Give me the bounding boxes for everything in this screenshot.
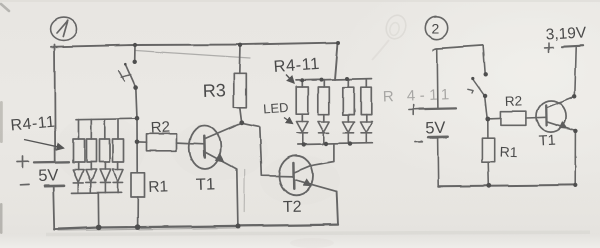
wire R1 to bottom rail [137, 198, 139, 228]
wire switch S1 to node [136, 88, 137, 119]
junction R2 branch [135, 140, 140, 145]
junction top rail / R3 [238, 43, 242, 47]
svg-text:R1: R1 [148, 178, 168, 196]
figure label glyph 1 [57, 21, 68, 37]
switch S2 lever [473, 79, 485, 96]
wire lead R9 top [323, 80, 325, 87]
junction bank2 bottom rail b [324, 142, 328, 146]
battery B1 plus sign [18, 157, 29, 168]
svg-text:3,19V: 3,19V [545, 24, 587, 43]
wire lead LED8 [365, 115, 367, 122]
wire LED bank 2 bottom rail [298, 143, 372, 144]
battery B1 minus sign [21, 183, 30, 185]
LED D7 [343, 122, 355, 144]
wire lead R4 top [78, 119, 80, 139]
svg-text:T2: T2 [283, 199, 302, 216]
wire top rail to switch S1 [134, 45, 136, 62]
wire top rail to resistor R3 [238, 45, 241, 74]
wire bank 1 to bottom rail [97, 193, 99, 228]
svg-text:5V: 5V [425, 119, 446, 138]
wire lead LED3 [104, 162, 106, 170]
resistor R2 c2 [501, 111, 526, 125]
battery B1 plus plate [34, 161, 69, 164]
wire T1 emitter to bottom rail c2 [574, 131, 576, 185]
LED D3 [100, 170, 111, 193]
LED D5 [297, 122, 309, 144]
junction switch S2 top contact [484, 72, 488, 76]
wire battery B1 to bottom rail [53, 186, 54, 229]
paper edge mark left upper [0, 101, 3, 143]
transistor T2 emitter arrow [303, 178, 312, 186]
wire lead LED7 [348, 115, 350, 122]
svg-text:R4-11: R4-11 [273, 55, 320, 76]
bottom smudge band [46, 232, 590, 234]
transistor T1 base bar [203, 136, 206, 157]
LED D6 [318, 122, 330, 144]
arrow label R4-11 bank2 [286, 75, 294, 84]
svg-text:5V: 5V [38, 166, 59, 185]
junction bank2 top rail c [345, 77, 349, 81]
arrow label LED [284, 118, 293, 124]
junction switch S1 bottom contact [133, 85, 138, 90]
wire lead LED1 [77, 162, 79, 170]
junction dots circuit 1 [96, 41, 352, 230]
junction bank1 rail / R1 column [135, 116, 140, 121]
resistor R6 [100, 139, 110, 162]
figure label circle 2 [425, 17, 447, 39]
transistor T1 c2 emitter [547, 122, 576, 131]
labels circuit 1 [10, 55, 321, 216]
wire lead R7 top [117, 119, 119, 139]
wire lead LED4 [117, 162, 119, 170]
wire top rail sketch double stroke [136, 51, 250, 59]
switch S1 actuator stroke [119, 71, 125, 82]
wire left vertical [54, 45, 57, 162]
junction T1 collector 3,19V node [572, 94, 576, 98]
junction R2 R1 node c2 [485, 117, 490, 122]
wire bottom rail [54, 225, 338, 230]
transistor T2 base bar [292, 163, 295, 189]
wire lead R8 top [301, 80, 303, 87]
svg-text:2: 2 [432, 21, 440, 37]
transistor T2 body [279, 156, 313, 196]
switch S1 lever [125, 64, 135, 87]
wire battery B2 to bottom rail [437, 137, 440, 186]
wire 3,19V terminal vertical [574, 48, 575, 97]
terminal 3,19V bar [562, 46, 583, 47]
junction dots circuit 2 [471, 72, 577, 188]
terminal 3,19V plus sign [545, 43, 554, 52]
resistor R2 [147, 134, 177, 151]
resistor R4 [73, 139, 85, 162]
resistor R10 [343, 87, 354, 114]
transistor T1 c2 base bar [545, 105, 548, 126]
svg-text:T1: T1 [538, 133, 556, 150]
transistor T1 emitter [205, 152, 237, 169]
wire switch S2 to node [485, 96, 488, 119]
svg-text:R 4-11: R 4-11 [383, 86, 454, 105]
wire resistor bank 1 top rail [76, 118, 137, 119]
transistor T1 c2 emitter arrow [559, 121, 568, 129]
resistor R1 [131, 173, 145, 198]
transistor T1 body [189, 126, 221, 169]
wire node to resistor R2 c2 [488, 117, 501, 120]
LED D2 [86, 170, 97, 193]
paper edge mark left lower [0, 203, 3, 234]
wire lead R5 top [90, 119, 92, 139]
transistor T1 c2 body [537, 101, 567, 133]
svg-text:R3: R3 [202, 80, 226, 101]
svg-text:R2: R2 [150, 119, 170, 137]
wire lead LED6 [323, 114, 325, 121]
wire left vertical c2 [436, 49, 439, 109]
junction switch S1 top contact [133, 60, 137, 64]
junction top rail / switch [133, 43, 137, 47]
wire node to resistor R2 [137, 141, 147, 143]
wire T1 collector node to T2 base [242, 123, 294, 177]
resistor R5 [87, 139, 97, 162]
transistor T2 collector wire to LED bank 2 [294, 144, 334, 173]
wire T2 emitter to bottom rail [337, 191, 338, 224]
wire lead LED2 [90, 162, 92, 170]
junction bottom rail / R1 [135, 224, 141, 230]
svg-text:LED: LED [263, 100, 289, 117]
transistor T1 collector [205, 123, 242, 139]
wire lead R11 top [365, 79, 367, 87]
junction switch S2 bottom contact [483, 94, 487, 98]
battery B2 minus plate [428, 135, 447, 138]
switch S1 actuator crossbar [121, 75, 131, 78]
wire R2 to T1 base c2 [526, 116, 547, 119]
junction switch S1 lever pivot [124, 63, 127, 66]
resistor R1 c2 [482, 138, 495, 162]
wire lead LED5 [301, 114, 303, 121]
switch S2 actuator tick [468, 89, 473, 93]
wire top rail c2 [433, 45, 484, 50]
eraser smudge patches [55, 115, 340, 248]
labels circuit 2 [425, 21, 587, 161]
junction top rail corner bank 2 [336, 41, 340, 45]
junction bank2 top rail a [300, 78, 304, 82]
wire node to resistor R1 c2 [487, 119, 489, 138]
resistor R3 [234, 73, 247, 107]
junction T1 emitter node [573, 129, 577, 133]
resistor R8 [296, 87, 308, 114]
paper edge mark top-left [1, 4, 9, 11]
figure label circle 1 [51, 18, 77, 41]
svg-text:T1: T1 [196, 175, 216, 194]
LED D8 [361, 122, 373, 144]
junction bottom rail / LED bank 1 [96, 225, 102, 231]
junction switch S2 lever pivot [471, 77, 474, 80]
wire R2 to T1 base [177, 143, 205, 144]
wire top rail to switch S2 [484, 45, 486, 74]
wire lead R10 top [348, 79, 350, 87]
wire lead R6 top [104, 119, 106, 139]
resistor R9 [318, 87, 329, 114]
svg-text:R1: R1 [499, 144, 518, 161]
transistor T1 emitter arrow [215, 153, 225, 162]
resistor R7 [113, 139, 124, 162]
svg-text:R2: R2 [505, 93, 523, 109]
LED D1 [73, 170, 84, 193]
junction bottom rail / T1 emitter [236, 224, 241, 229]
wire bottom rail c2 [438, 185, 575, 186]
junction bank2 top rail b [320, 78, 324, 82]
faint erased vertical near T1 emitter [243, 170, 246, 212]
battery B1 minus plate [45, 184, 64, 187]
transistor T1 c2 collector [547, 96, 575, 107]
wire top rail to bank 2 [335, 43, 338, 80]
ghost scribble doodle [372, 13, 409, 60]
junction bottom rail right corner c2 [573, 183, 577, 187]
arrow label R4-11 bank1 [24, 140, 64, 149]
junction R3 / T1 collector [239, 120, 244, 125]
wire R3 to T1 collector node [240, 107, 242, 122]
junction bank2 bottom rail c [348, 141, 352, 145]
wire node to resistor R1 [136, 118, 138, 173]
battery B2 minus sign [415, 140, 423, 142]
junction bottom rail R1 c2 [486, 183, 491, 188]
resistor R11 [361, 87, 372, 114]
wire top rail [51, 43, 338, 47]
wire resistor bank 2 top rail [296, 79, 372, 81]
battery B2 plus plate [420, 108, 456, 111]
transistor T2 emitter [294, 180, 337, 192]
wire LED bank 1 bottom rail [72, 191, 122, 194]
battery B2 plus sign [409, 105, 419, 115]
wire R1 to bottom rail c2 [487, 162, 490, 185]
wire T1 emitter to bottom rail [237, 169, 238, 226]
junction bank2 bottom rail a [302, 142, 306, 146]
LED D4 [112, 170, 123, 193]
wire bottom rail sketch double stroke [58, 228, 240, 231]
